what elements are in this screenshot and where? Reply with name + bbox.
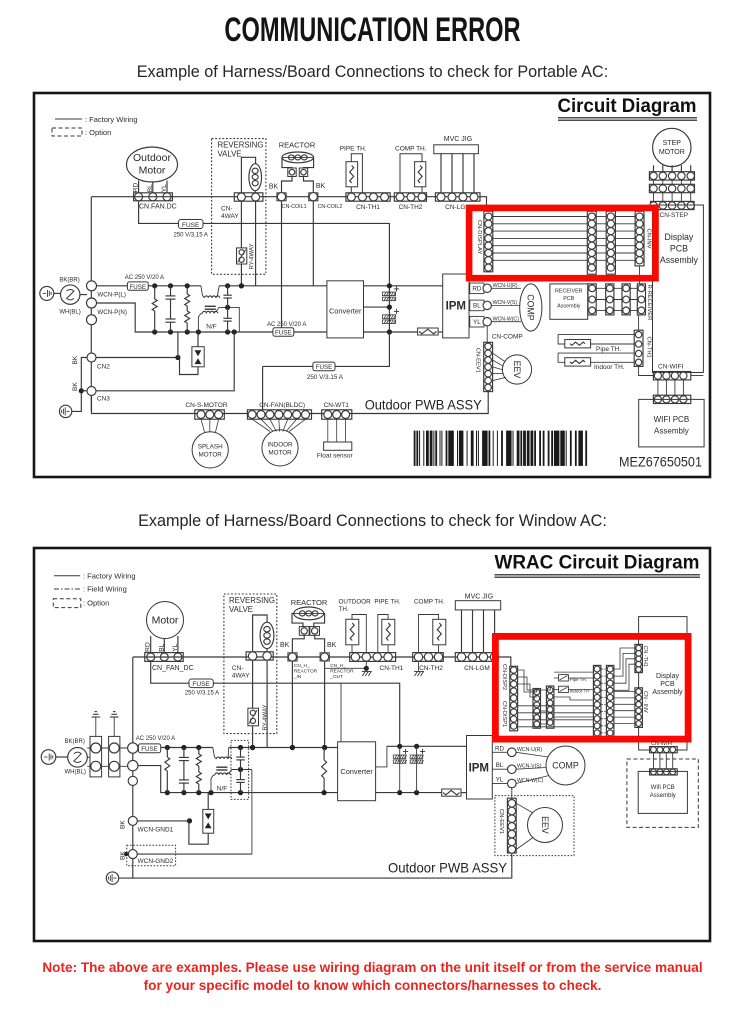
svg-text:WRAC Circuit Diagram: WRAC Circuit Diagram [495, 552, 700, 574]
svg-text:BK: BK [72, 382, 79, 391]
connector CN-TH1 2 [350, 653, 396, 662]
svg-text:CN - INV: CN - INV [642, 691, 648, 713]
wire converter feed stub [340, 683, 342, 742]
outdoor motor M1 [127, 147, 178, 182]
svg-text:CN-TH1: CN-TH1 [356, 204, 380, 211]
ground CN-TH1 [365, 661, 367, 668]
svg-text:CN-FAN(BLDC): CN-FAN(BLDC) [259, 402, 305, 409]
wire DC bus caps [399, 746, 401, 792]
connector CN-EEV1 2 [507, 798, 516, 853]
connector CN-EEV1 [484, 342, 493, 391]
connector WCN-P(N) [87, 298, 97, 308]
capacitor C6 2 [420, 751, 425, 753]
step motor M2 [653, 128, 691, 166]
wire main bus top 2 [133, 657, 511, 666]
line filter core [205, 305, 216, 307]
wire th ground link [325, 667, 367, 669]
wire phase links [87, 747, 127, 749]
svg-text:Assembly: Assembly [654, 427, 689, 436]
svg-text:_IN: _IN [293, 674, 302, 680]
connector CN-TH1 top [346, 193, 390, 201]
svg-text:: Option: : Option [83, 598, 109, 607]
wire 4way bridge [241, 157, 255, 193]
line filter choke top 2 [213, 748, 217, 760]
connector CN-LGM [435, 193, 480, 201]
wire colB to colC links [554, 697, 594, 700]
fusible resistor FR1 2 [442, 789, 461, 796]
legend option [52, 128, 82, 136]
wire rail L 2 [161, 747, 213, 749]
connector CN-TH1 display [635, 644, 643, 672]
svg-text:Display: Display [664, 232, 693, 242]
AC source [60, 285, 79, 304]
svg-text:OUTDOOR: OUTDOOR [339, 599, 372, 606]
fuse F1 250V/3.15A 2 [189, 679, 213, 688]
reactor terminals [288, 168, 296, 177]
svg-text:Converter: Converter [329, 307, 362, 316]
connector CN-COIL2 [309, 193, 318, 201]
svg-text:BK: BK [269, 184, 279, 191]
wire colD to CN-INV [614, 691, 635, 693]
reversing valve option box [212, 139, 266, 275]
wire fuse feed [139, 201, 390, 332]
svg-text:PCB: PCB [670, 244, 688, 254]
wire wifi harness [657, 380, 659, 395]
wire rail L [148, 285, 201, 287]
fan motor M1 [147, 602, 184, 639]
varistor converter input [323, 748, 325, 761]
svg-text:RECEIVER: RECEIVER [555, 289, 583, 295]
svg-text:CN-COIL1: CN-COIL1 [282, 204, 307, 210]
solenoid coil 4way [249, 164, 262, 191]
wire GND1 feed [137, 820, 189, 822]
svg-text:CN-WIFI: CN-WIFI [658, 363, 683, 370]
svg-text:FUSE: FUSE [316, 364, 333, 371]
connector CN_FAN_DC [145, 653, 183, 662]
IPM U1 [443, 274, 469, 338]
thermistor Pipe TH loop [558, 335, 634, 344]
connector display header col1 [587, 211, 596, 274]
connector wifi pcb header [653, 395, 690, 403]
svg-text:N/F: N/F [217, 786, 228, 793]
line filter core 2 [216, 766, 227, 768]
svg-text:CN-LGM: CN-LGM [464, 665, 490, 672]
wire indoor leads [252, 419, 270, 431]
wifi PCB assembly box 2 [638, 771, 687, 813]
svg-text:CN-DISPLAY: CN-DISPLAY [476, 220, 482, 254]
fusible resistor FR1 [418, 328, 439, 335]
connector step row1 [649, 172, 694, 180]
svg-text:YL: YL [161, 184, 168, 192]
legend factory wiring [55, 118, 82, 120]
svg-text:COMP: COMP [526, 294, 536, 321]
svg-text:CN.FAN.DC: CN.FAN.DC [139, 204, 177, 211]
svg-text:YL: YL [172, 643, 179, 651]
connector CN_H_REACTOR_OUT [320, 653, 329, 661]
svg-text:Float sensor: Float sensor [317, 453, 354, 460]
connector CN-TH2 2 [413, 653, 444, 662]
svg-text:Outdoor: Outdoor [133, 152, 171, 164]
thermistor indoor th mini [554, 689, 559, 691]
power plug 2 [41, 750, 56, 765]
connector CN-TH2 top [394, 193, 426, 201]
figure frame - Window AC circuit diagram [34, 548, 710, 941]
EEV valve [502, 355, 531, 384]
svg-text:4WAY: 4WAY [221, 213, 239, 220]
connector spare [87, 315, 97, 325]
wire DC bus fuse3 link [263, 332, 390, 366]
svg-text:Display: Display [656, 673, 679, 680]
capacitor C5 2 [403, 751, 408, 753]
svg-text:BL: BL [147, 184, 154, 192]
capacitor C4 [227, 307, 229, 318]
wire CN2 feed [96, 357, 178, 359]
wire reactor to CN-COIL2 [304, 177, 314, 193]
connector receiver headers [588, 284, 596, 315]
svg-text:EEV: EEV [512, 361, 522, 379]
svg-text:PIPE TH.: PIPE TH. [340, 146, 367, 153]
svg-text:IPM: IPM [446, 301, 466, 313]
EEV valve 2 [528, 808, 563, 843]
capacitor C5 electrolytic [394, 288, 399, 290]
svg-text:Assembly: Assembly [557, 304, 581, 310]
svg-text:AC 250 V/20 A: AC 250 V/20 A [136, 736, 175, 742]
connector CN-LGM 2 [455, 653, 496, 662]
wire colD to CN-TH1 staircase [614, 648, 635, 669]
svg-text:RD: RD [495, 745, 505, 752]
svg-text:MOTOR: MOTOR [199, 452, 223, 459]
svg-text:Outdoor PWB ASSY: Outdoor PWB ASSY [388, 860, 508, 876]
svg-text:REACTOR: REACTOR [291, 598, 328, 607]
capacitor C2 2 [183, 771, 185, 780]
connector CN-TH1 right [634, 330, 643, 366]
svg-text:Outdoor PWB ASSY: Outdoor PWB ASSY [365, 398, 482, 413]
relay RY-4WAY [240, 201, 242, 248]
svg-text:250 V/3,15 A: 250 V/3,15 A [174, 233, 208, 239]
power plug [40, 286, 54, 300]
svg-text:WH(BL): WH(BL) [65, 770, 86, 776]
highlight red box CN-DISP [495, 636, 688, 739]
capacitor C1 2 [183, 748, 185, 758]
svg-text:CN-DISP2: CN-DISP2 [501, 664, 507, 690]
wire rail N 2 [138, 766, 338, 793]
svg-text:CN-S-MOTOR: CN-S-MOTOR [185, 402, 227, 409]
wire disp1 bus [518, 705, 594, 707]
svg-text:CN-COMP: CN-COMP [492, 334, 523, 341]
svg-text:RD: RD [145, 642, 152, 652]
fuse F2 AC 250V/20A [97, 285, 128, 287]
svg-text:BK(BR): BK(BR) [65, 739, 85, 745]
svg-text:TH.: TH. [339, 606, 349, 613]
capacitor C3 2 [240, 748, 242, 758]
wire RY-4WAY to rail [240, 264, 242, 286]
relay RY-4WAY 2 [252, 660, 254, 708]
svg-text:BK(BR): BK(BR) [59, 278, 79, 284]
svg-text:WCN-GND2: WCN-GND2 [138, 858, 174, 865]
display PCB assembly block [653, 205, 704, 373]
svg-text:COMP TH.: COMP TH. [395, 146, 427, 153]
svg-text:BK: BK [327, 642, 337, 649]
svg-text:AC 250 V/20 A: AC 250 V/20 A [125, 275, 164, 281]
connector central header D [606, 665, 614, 736]
wire 4way bridge 2 [253, 615, 268, 652]
svg-text:REVERSING: REVERSING [229, 596, 275, 605]
svg-text:REACTOR: REACTOR [330, 668, 354, 674]
wire receiver to CN-TH1 [638, 315, 640, 330]
svg-text:BL: BL [158, 643, 165, 651]
wifi PCB assembly box [639, 399, 704, 447]
wire left bus vertical [90, 197, 92, 412]
ground G1 2 [106, 872, 118, 884]
svg-text:CN-STEP: CN-STEP [660, 212, 689, 219]
svg-text:YL: YL [496, 777, 504, 784]
thermistor Indoor TH loop [558, 353, 634, 362]
svg-text:CN-TH2: CN-TH2 [399, 204, 423, 211]
svg-text:RD: RD [472, 286, 482, 293]
wire reactor to CN-COIL1 [282, 177, 293, 193]
wire motor leads [138, 181, 140, 193]
display PCB assembly block 2 [639, 617, 687, 750]
wire step motor leads [653, 165, 655, 172]
IPM U1 2 [467, 736, 493, 800]
connector CN-WIFI row 2 [650, 747, 678, 753]
varistor RV3 [186, 306, 188, 311]
ground CN-TH2 [418, 661, 420, 671]
svg-text:IPM: IPM [469, 763, 489, 775]
wire 4way pin2 down [255, 201, 257, 286]
thermistor pipe th mini [554, 671, 594, 673]
svg-text:BK: BK [119, 820, 126, 829]
capacitor C4 2 [240, 770, 242, 780]
compressor COMP [520, 284, 542, 331]
float sensor [327, 419, 329, 442]
wire motor leads 2 [150, 636, 152, 653]
wire receiver links [588, 287, 645, 289]
svg-text:CN_H_: CN_H_ [294, 663, 310, 669]
svg-text:Pipe TH.: Pipe TH. [570, 677, 587, 682]
svg-text:CN-WT1: CN-WT1 [324, 402, 350, 409]
varistor RV3 2 [198, 766, 200, 772]
svg-text:COMP TH.: COMP TH. [414, 599, 445, 606]
svg-text:CN3: CN3 [97, 396, 110, 403]
svg-text:FUSE: FUSE [182, 222, 200, 229]
wire disp mid links [541, 723, 547, 725]
svg-text:BL: BL [473, 303, 481, 310]
diode pair D1 [197, 332, 199, 347]
splash motor M3 [192, 432, 228, 468]
wire reactor out down [324, 661, 326, 747]
svg-text:SPLASH: SPLASH [198, 444, 223, 451]
AC source 2 [68, 748, 88, 768]
wire fuse feed 2 [151, 661, 400, 746]
svg-text:Wifi PCB: Wifi PCB [651, 785, 675, 791]
line filter N/F choke bottom [198, 313, 202, 332]
compressor COMP 2 [546, 746, 585, 785]
connector CN-INV display [635, 688, 643, 728]
varistor RV2 2 [198, 748, 200, 755]
svg-text:STEP: STEP [663, 140, 682, 147]
wire EEV leads 2 [516, 803, 533, 813]
svg-text:BL: BL [496, 762, 504, 769]
svg-text:COMP: COMP [552, 761, 579, 771]
ground mast 1 [95, 717, 97, 736]
solenoid coil 4way 2 [260, 622, 274, 648]
svg-text:MOTOR: MOTOR [659, 149, 685, 156]
svg-text:BK: BK [280, 642, 290, 649]
svg-text:CN-: CN- [232, 665, 244, 672]
svg-text:CN-EEV1: CN-EEV1 [498, 809, 504, 834]
connector CN-INV [635, 211, 644, 266]
svg-text:Assembly: Assembly [652, 689, 683, 696]
svg-text:CN_FAN_DC: CN_FAN_DC [152, 665, 194, 672]
EEV option box [495, 796, 574, 856]
wire CN-COMP to CN-EEV1 [486, 326, 488, 342]
wire EEV leads [493, 353, 506, 362]
svg-text:EEV: EEV [540, 816, 550, 834]
svg-text:CN-: CN- [221, 206, 233, 213]
svg-text:YL: YL [473, 319, 481, 326]
capacitor C6 electrolytic [394, 311, 399, 313]
connector WCN bus circles [128, 743, 138, 753]
svg-text:VALVE: VALVE [229, 605, 253, 614]
svg-text:Converter: Converter [340, 767, 373, 776]
fuse F1 250V/3.15A [179, 220, 204, 229]
fuse F3 250V/3.15A [313, 362, 335, 371]
svg-text:FUSE: FUSE [192, 681, 210, 688]
wifi option box [627, 759, 698, 827]
svg-text:R-RECEIVER: R-RECEIVER [646, 285, 652, 321]
svg-text:REACTOR: REACTOR [279, 141, 316, 150]
svg-text:RY-4WAY: RY-4WAY [263, 704, 269, 730]
legend option 2 [53, 599, 81, 608]
terminal block 1 [90, 736, 102, 777]
svg-text:CN-INV: CN-INV [646, 229, 652, 249]
connector mid header A [533, 689, 541, 729]
svg-text:WCN-P(N): WCN-P(N) [97, 309, 127, 316]
connector CN_H_REACTOR_IN [288, 653, 297, 661]
svg-text:: Option: : Option [85, 128, 111, 137]
wire converter outputs 2 [376, 746, 387, 767]
connector CN-STEP [653, 193, 655, 202]
svg-text:Motor: Motor [139, 165, 166, 177]
wire CN3 feed [96, 332, 234, 391]
svg-text:4WAY: 4WAY [232, 672, 250, 679]
svg-text:CN-TH2: CN-TH2 [419, 665, 443, 672]
svg-text:VALVE: VALVE [218, 150, 242, 159]
svg-text:WH(BL): WH(BL) [59, 310, 80, 316]
barcode [414, 431, 416, 466]
wire CN-COIL2 down [312, 201, 314, 286]
svg-text:MOTOR: MOTOR [268, 450, 292, 457]
svg-text:250 V/3.15 A: 250 V/3.15 A [307, 374, 344, 381]
wire reactor in down [291, 661, 293, 747]
svg-text:MVC JIG: MVC JIG [444, 136, 472, 143]
wire CN-INV down [639, 266, 641, 284]
capacitor C3 [227, 286, 229, 295]
wire CN-TH1 to CN-WIFI [639, 366, 654, 375]
wire comp leads [516, 752, 548, 757]
svg-text:CN -TH1: CN -TH1 [642, 646, 648, 667]
line filter choke bottom 2 [211, 775, 215, 793]
svg-text:WIFI PCB: WIFI PCB [654, 415, 690, 424]
svg-text:WCN-P(L): WCN-P(L) [97, 291, 126, 298]
wire splash leads [201, 419, 205, 432]
diode pair D1 2 [207, 793, 209, 810]
terminal block 2 [109, 736, 120, 777]
line filter N/F choke top [201, 286, 205, 298]
connector CN-4WAY 2 [246, 652, 273, 660]
connector step row2 [653, 180, 655, 184]
svg-text:AC 250 V/20 A: AC 250 V/20 A [267, 322, 306, 328]
svg-text:Circuit Diagram: Circuit Diagram [558, 95, 697, 117]
wire GND2 feed [137, 853, 252, 855]
connector CN-DISPLAY [484, 211, 493, 272]
connector display header col2 [606, 211, 615, 274]
svg-text:PCB: PCB [660, 681, 675, 688]
wire rail N entry [97, 303, 327, 332]
capacitor C1 [170, 286, 172, 296]
wire header C-D links [602, 668, 606, 670]
svg-text:BK: BK [72, 355, 79, 364]
ground mast 2 [113, 717, 115, 736]
connector central header C [593, 665, 601, 736]
svg-text:Motor: Motor [152, 615, 179, 627]
wire disp2 staircase [518, 670, 537, 692]
connector CN-WIFI row [653, 372, 690, 380]
wire diode return [180, 358, 199, 375]
svg-text:PIPE TH.: PIPE TH. [374, 599, 400, 606]
varistor RV1 [154, 286, 156, 299]
wire PWB boundary 2 [119, 853, 512, 878]
wire CN-COIL1 down [281, 201, 283, 332]
svg-text:WCN-W(C): WCN-W(C) [517, 778, 543, 784]
wire converter outputs [364, 285, 443, 287]
svg-text:: Factory Wiring: : Factory Wiring [85, 115, 138, 124]
wire wifi harness 2 [653, 753, 655, 769]
receiver PCB assembly [550, 284, 588, 319]
svg-text:CN-EEV1: CN-EEV1 [475, 348, 481, 373]
connector CN-DISP2/CN-DISP1 [510, 666, 518, 731]
legend field wiring [54, 588, 80, 590]
connector CN-COIL1 [277, 193, 286, 201]
wire WCN to EEV col [511, 787, 513, 798]
svg-text:FUSE: FUSE [141, 746, 158, 753]
svg-text:MVC JIG: MVC JIG [465, 594, 493, 601]
converter U2 [327, 281, 364, 338]
wire reactor to CN_H_REACTOR_IN [292, 635, 304, 653]
svg-text:RY-4WAY: RY-4WAY [249, 243, 255, 269]
svg-text:CN-TH1: CN-TH1 [646, 337, 652, 358]
legend factory wiring 2 [54, 575, 80, 577]
svg-text:CN-TH1: CN-TH1 [380, 665, 404, 672]
svg-text:WCN-U(R): WCN-U(R) [517, 747, 542, 753]
svg-text:_OUT: _OUT [329, 674, 343, 680]
svg-text:Assembly: Assembly [660, 255, 699, 265]
connector WCN-GND1 [128, 816, 137, 825]
svg-text:REVERSING: REVERSING [218, 141, 264, 150]
svg-text:N/F: N/F [206, 323, 217, 330]
wire reactor to CN_H_REACTOR_OUT [315, 635, 325, 653]
wire 4way pin2 down 2 [266, 660, 268, 747]
svg-text:250 V/3.15 A: 250 V/3.15 A [185, 691, 219, 697]
svg-text:INDOOR: INDOOR [267, 442, 293, 449]
svg-text:BK: BK [316, 183, 326, 190]
wire CN2 to ground bus [72, 358, 87, 412]
svg-text:BK: BK [119, 851, 126, 860]
indoor motor M4 [262, 430, 298, 466]
connector WCN-P(L) [87, 281, 97, 291]
varistor RV2 [186, 286, 188, 294]
